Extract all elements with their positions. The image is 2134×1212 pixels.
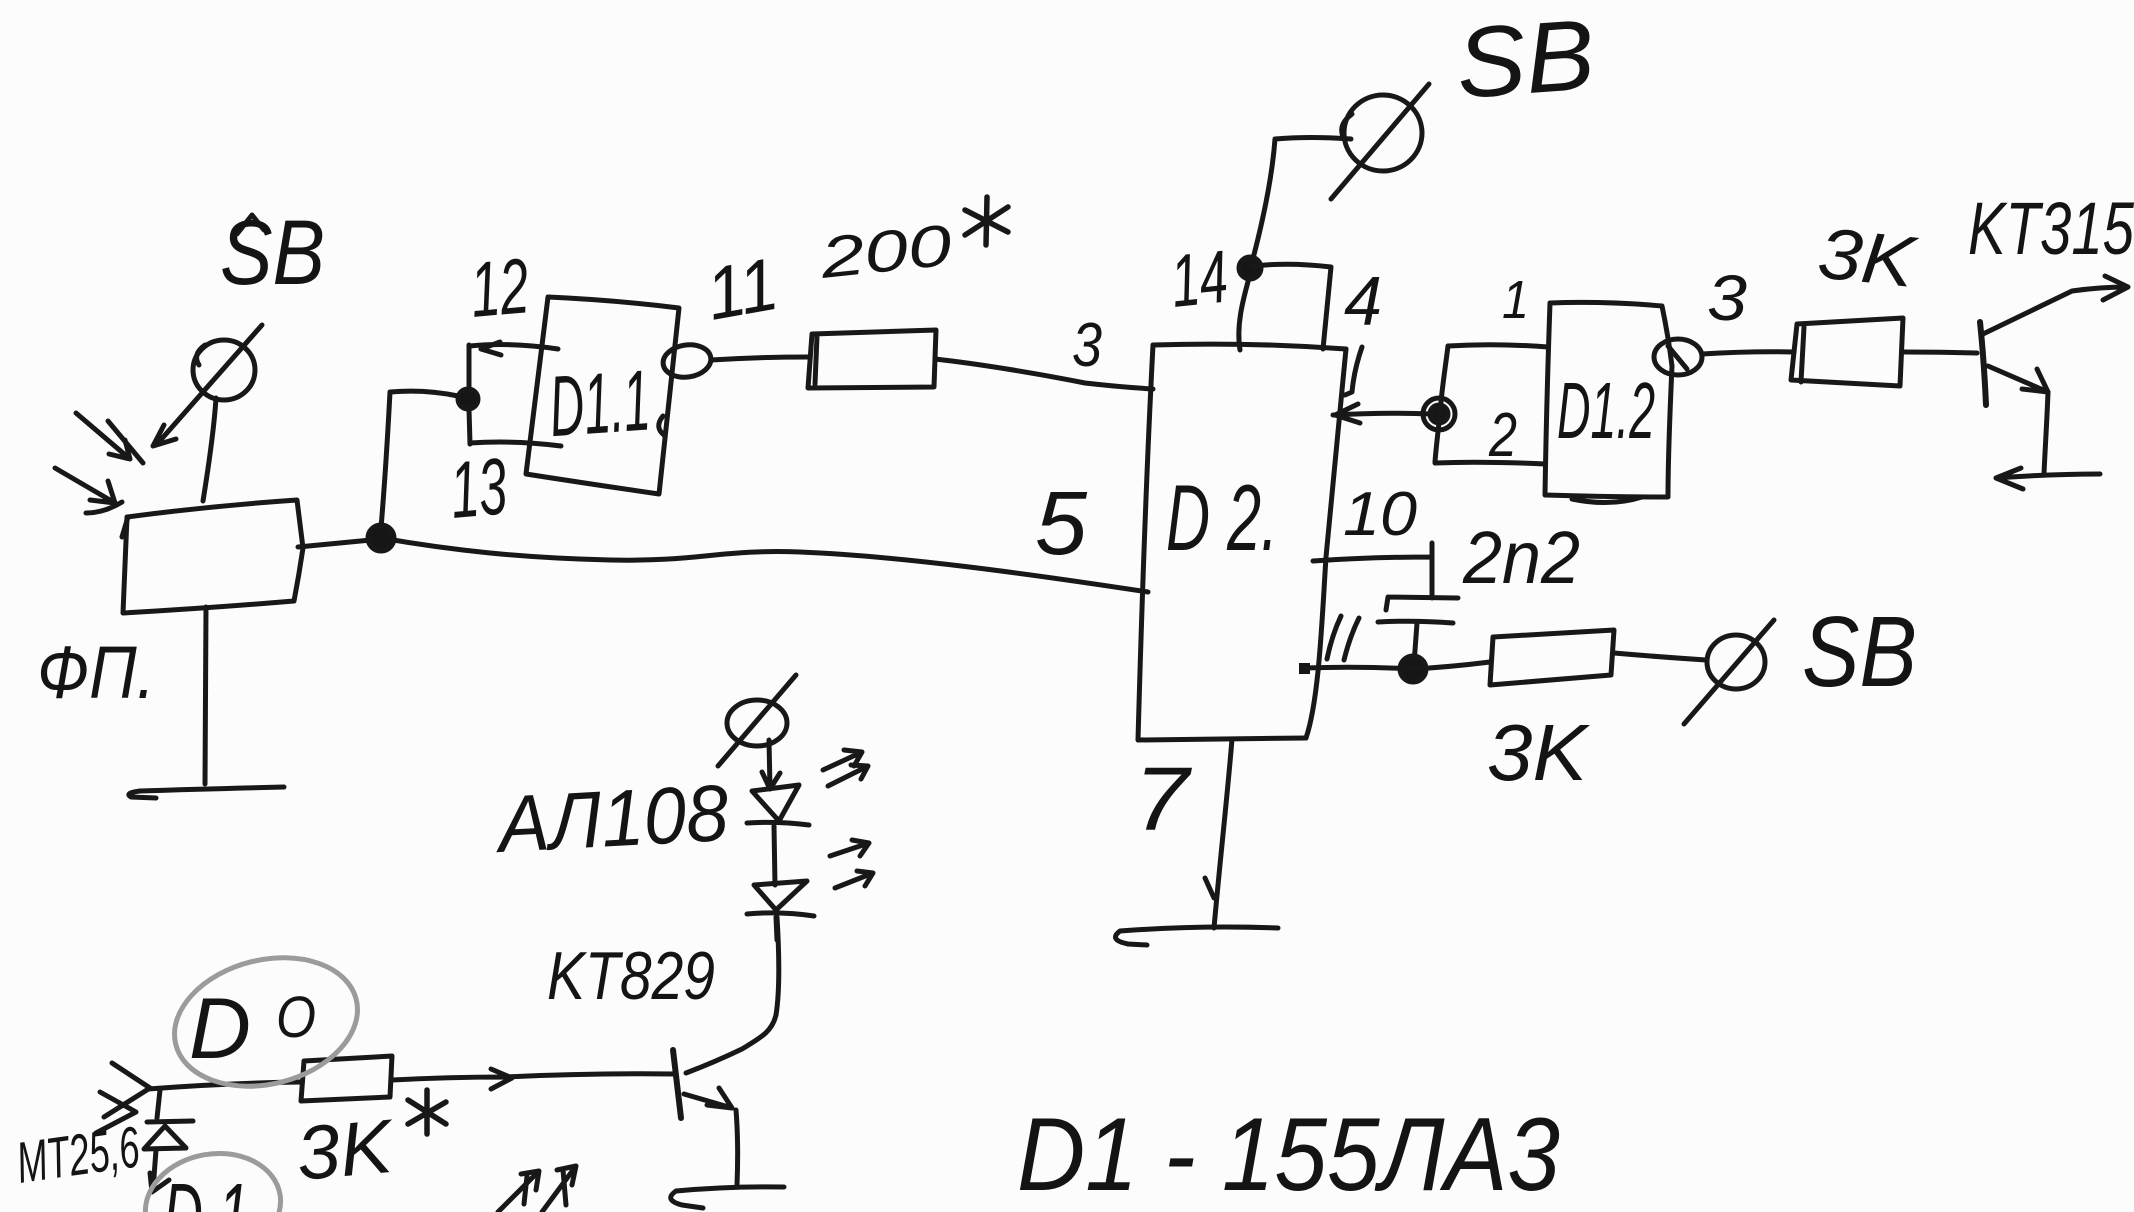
svg-text:D 1: D 1: [163, 1166, 249, 1212]
svg-text:7: 7: [1134, 750, 1192, 850]
svg-text:D: D: [189, 981, 251, 1077]
svg-text:SB: SB: [220, 202, 325, 304]
svg-text:1: 1: [1502, 270, 1529, 330]
svg-text:4: 4: [1344, 262, 1382, 340]
svg-text:O: O: [276, 985, 316, 1050]
svg-text:3K: 3K: [1814, 213, 1921, 303]
svg-text:SB: SB: [1802, 596, 1917, 708]
svg-text:3K: 3K: [293, 1104, 398, 1197]
svg-text:ФП.: ФП.: [37, 631, 155, 714]
svg-text:KT829: KT829: [547, 938, 715, 1014]
svg-text:5: 5: [1035, 474, 1088, 574]
svg-text:D 2.: D 2.: [1166, 465, 1278, 570]
svg-text:200: 200: [816, 213, 954, 291]
svg-text:13: 13: [447, 441, 511, 535]
svg-text:11: 11: [700, 242, 783, 336]
svg-text:2: 2: [1488, 401, 1517, 470]
svg-text:SB: SB: [1453, 0, 1598, 120]
svg-text:KT315: KT315: [1968, 187, 2134, 270]
svg-text:3: 3: [1707, 262, 1747, 334]
svg-text:D1 - 155ЛА3: D1 - 155ЛА3: [1017, 1097, 1560, 1212]
svg-text:14: 14: [1167, 235, 1231, 323]
svg-text:АЛ108: АЛ108: [492, 768, 731, 869]
svg-text:D1.1: D1.1: [546, 352, 652, 455]
svg-text:2n2: 2n2: [1462, 516, 1580, 599]
svg-text:3K: 3K: [1487, 708, 1591, 797]
svg-text:10: 10: [1343, 480, 1417, 549]
svg-text:12: 12: [467, 241, 532, 334]
svg-text:D1.2: D1.2: [1557, 366, 1655, 455]
svg-text:3: 3: [1072, 311, 1102, 380]
